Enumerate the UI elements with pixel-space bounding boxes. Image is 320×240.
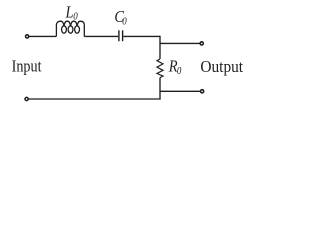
- svg-text:Output: Output: [200, 58, 243, 76]
- svg-text:0: 0: [122, 16, 127, 28]
- wire output bottom tap: [160, 90, 201, 92]
- svg-text:0: 0: [73, 11, 78, 23]
- input terminal bottom: [25, 97, 28, 100]
- wire output top tap: [160, 42, 200, 44]
- output terminal top: [200, 42, 203, 45]
- label C0: [114, 8, 126, 27]
- output terminal bottom: [201, 90, 204, 93]
- wire input top to inductor: [29, 35, 57, 37]
- inductor L0: [56, 21, 84, 36]
- capacitor C0 plate left: [118, 30, 120, 41]
- svg-text:0: 0: [177, 65, 182, 77]
- label L0: [65, 3, 78, 22]
- svg-text:Input: Input: [12, 58, 43, 76]
- wire capacitor to junction corner: [123, 35, 160, 37]
- wire inductor to capacitor: [84, 35, 118, 37]
- wire vertical branch lower: [159, 78, 161, 99]
- capacitor C0 plate right: [122, 30, 124, 41]
- label R0: [168, 58, 182, 77]
- input terminal top: [26, 35, 29, 38]
- wire vertical branch upper: [159, 36, 161, 59]
- resistor R0: [157, 59, 163, 78]
- wire bottom rail: [28, 98, 160, 100]
